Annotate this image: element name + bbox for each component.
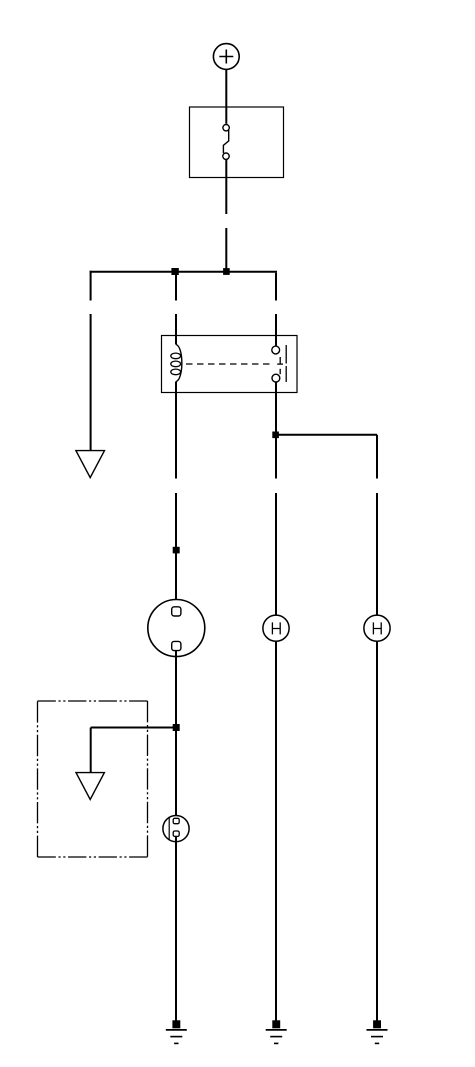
node splice dot on motor wire — [173, 547, 180, 554]
wire horn H1 to ground — [275, 642, 277, 1021]
fuse box (under-hood fuse/relay box) — [190, 107, 284, 178]
relay actuation dashed link — [186, 363, 272, 365]
dashed enclosure (component outline box) — [38, 701, 148, 857]
wire relay coil output down to motor — [175, 393, 177, 600]
washer motor M1 — [148, 600, 205, 657]
relay coil L1 — [171, 336, 182, 393]
wire relay output down — [275, 393, 277, 615]
ground arrow G1 (chassis ground arrow) — [76, 451, 105, 478]
connector C1 — [163, 816, 189, 842]
wire branch to ground arrow — [91, 727, 176, 729]
wire horn H2 to ground — [376, 642, 378, 1021]
horn H2 — [364, 615, 390, 641]
node junction on bus rail (motor branch) — [171, 268, 178, 275]
node junction (horn branch) — [272, 432, 279, 439]
wire left branch down — [90, 271, 92, 451]
ground G102 (horn 1) — [266, 1020, 287, 1043]
ground G103 (horn 2) — [367, 1020, 388, 1043]
battery positive terminal B+ — [213, 44, 239, 70]
wire connector to ground — [175, 836, 177, 1020]
wire middle branch to relay coil — [175, 273, 177, 336]
wire right branch to relay contact — [275, 273, 277, 336]
relay box (washer relay) — [162, 336, 298, 393]
node junction on bus rail (fuse feed) — [223, 268, 230, 275]
wire branch to right horn — [276, 434, 377, 436]
relay contact set S1 — [272, 336, 286, 393]
wire fuse to junction node — [225, 160, 227, 272]
wire battery to fuse — [225, 70, 227, 124]
ground G101 (motor circuit) — [166, 1020, 187, 1043]
horn H1 — [263, 615, 289, 641]
wire right horn column down — [376, 435, 378, 615]
ground arrow G2 — [76, 773, 104, 800]
bus rail wire — [90, 271, 277, 273]
wire motor to connector — [175, 651, 177, 819]
node junction (ground branch) — [173, 724, 180, 731]
fuse F1 (fusible link) — [223, 125, 230, 160]
